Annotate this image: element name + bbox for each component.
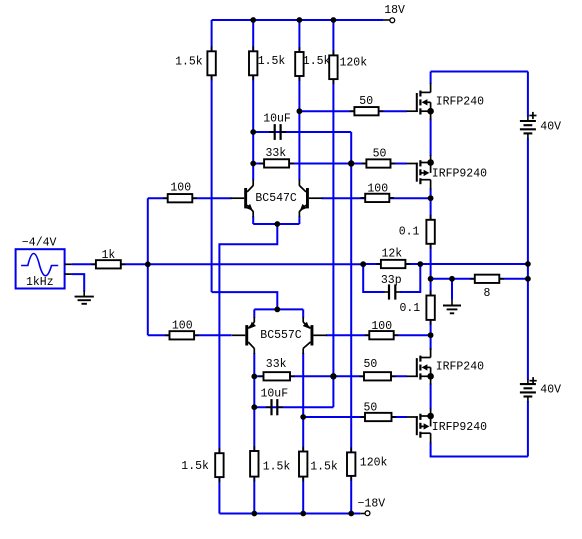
transistor BC557C left: [232, 317, 256, 354]
label 1.5k #3: [303, 55, 331, 68]
label 0.1 top: [399, 225, 420, 238]
battery 40V top: [520, 116, 536, 138]
junction 10uF bottom: [251, 404, 257, 410]
svg-text:100: 100: [371, 320, 392, 333]
label 40V top: [540, 121, 561, 134]
label BC557C: [260, 329, 302, 342]
junction 33k top: [250, 161, 256, 167]
wire ground tap: [451, 279, 453, 300]
junction output to load: [428, 276, 434, 282]
wire 33k/50-2 row: [253, 163, 407, 165]
label IRFP9240 top: [432, 167, 487, 180]
capacitor 10uF bottom: [266, 399, 283, 415]
svg-text:18V: 18V: [384, 4, 405, 17]
wire BC547 left emitter drop: [252, 216, 254, 224]
resistor 120k bottom: [347, 447, 355, 481]
ground at output mid-rail: [443, 300, 461, 314]
terminal -18V: [365, 511, 370, 516]
wire feedback row to mid rail: [363, 263, 528, 265]
label 18V: [384, 4, 405, 17]
resistor 1k input: [91, 260, 125, 268]
label 50 #4: [364, 402, 378, 415]
transistor BC547C right: [299, 180, 322, 217]
capacitor 33p: [384, 284, 400, 299]
label 50 #3: [364, 358, 378, 371]
junction gate row 100 top: [428, 195, 434, 201]
label 1kHz: [26, 276, 54, 289]
svg-text:1.5k: 1.5k: [310, 460, 338, 473]
junction gate row 100 bottom: [428, 332, 434, 338]
label BC547C: [255, 192, 297, 205]
label 1.5k bottom #3: [310, 460, 338, 473]
label 0.1 bottom: [400, 302, 421, 315]
wire 33p left leg: [363, 264, 384, 292]
resistor 100 base top-left: [163, 194, 197, 202]
wire bottom emitter row: [254, 308, 303, 310]
svg-text:120k: 120k: [340, 57, 368, 70]
wire bottom drain to battery: [431, 443, 528, 457]
junction 50-4 row: [300, 414, 306, 420]
label IRFP240 bottom: [436, 361, 484, 374]
terminal 18V: [390, 18, 395, 23]
label 40V bottom: [540, 384, 561, 397]
svg-text:1.5k: 1.5k: [263, 460, 291, 473]
wire col4 120k to lower bias node: [332, 20, 334, 376]
wire bias node drop to 10uF: [332, 376, 334, 407]
wire output column sources top: [430, 119, 432, 157]
resistor 33k top: [259, 159, 293, 167]
capacitor 10uF top: [269, 124, 286, 140]
wire drain top to battery: [431, 71, 528, 73]
svg-text:33k: 33k: [266, 358, 287, 371]
resistor 1.5k collector load right: [295, 47, 303, 81]
wire +18V top rail: [212, 19, 384, 21]
label 12k: [382, 247, 403, 260]
wire 8ohm row: [431, 278, 528, 280]
wire battery column lower: [527, 401, 529, 457]
wire input row: [72, 263, 364, 265]
svg-text:BC557C: BC557C: [260, 329, 302, 342]
svg-text:1kHz: 1kHz: [26, 276, 54, 289]
terminal 18V lead: [384, 19, 391, 21]
svg-text:−4/4V: −4/4V: [22, 236, 57, 249]
svg-text:IRFP240: IRFP240: [436, 361, 484, 374]
wire battery column upper: [527, 72, 529, 117]
wire 50-4 gate row: [303, 416, 407, 418]
svg-text:0.1: 0.1: [399, 225, 420, 238]
wire base row bottom-left: [148, 334, 232, 336]
svg-text:1.5k: 1.5k: [175, 55, 203, 68]
svg-text:1.5k: 1.5k: [258, 55, 286, 68]
voltage source pins: [65, 264, 72, 274]
junction bottom rail B3: [300, 511, 306, 517]
transistor BC557C right: [303, 317, 327, 354]
resistor 1.5k bottom collector load left: [250, 446, 258, 482]
junction mid rail load: [525, 276, 531, 282]
label 120k bottom: [360, 457, 388, 470]
label IRFP9240 bottom: [432, 421, 487, 434]
junction bottom emitters: [274, 307, 280, 313]
wire battery column middle: [527, 138, 529, 380]
mosfet IRFP240 top: [407, 83, 434, 120]
wire 33p right leg: [400, 264, 420, 292]
resistor 50 gate 1: [350, 107, 384, 115]
junction 10uF top: [250, 129, 256, 135]
svg-text:33p: 33p: [381, 274, 402, 287]
resistor 100 gate top-right: [361, 194, 395, 202]
label 1.5k bottom #1: [181, 460, 209, 473]
label 1.5k #2: [258, 55, 286, 68]
label 8: [484, 287, 491, 300]
junction feedback left: [360, 261, 366, 267]
svg-text:10uF: 10uF: [263, 113, 291, 126]
label 1k: [102, 249, 116, 262]
svg-text:IRFP240: IRFP240: [436, 95, 484, 108]
resistor 100 base bottom-left: [165, 331, 199, 339]
svg-text:−18V: −18V: [358, 498, 386, 511]
svg-text:50: 50: [373, 148, 387, 161]
wire top emitter row: [253, 223, 299, 225]
wire -18V bottom rail: [219, 513, 360, 515]
svg-text:IRFP9240: IRFP9240: [432, 167, 487, 180]
label -4/4V: [22, 236, 57, 249]
battery 40V bottom: [520, 379, 536, 401]
wire PNP tail jog row: [212, 292, 278, 309]
label 100 top-left: [170, 181, 191, 194]
junction input node: [145, 261, 151, 267]
resistor 1.5k tail top-left: [207, 46, 215, 80]
junction rail col2: [250, 17, 256, 23]
wire 10uF top row: [253, 131, 351, 133]
label 100 bottom-right: [371, 320, 392, 333]
resistor 0.1 bottom source: [426, 291, 434, 325]
svg-text:50: 50: [364, 358, 378, 371]
wire bias node column B4: [350, 132, 352, 514]
wire base row top-right: [322, 197, 431, 199]
svg-text:100: 100: [170, 181, 191, 194]
label 50 #2: [373, 148, 387, 161]
resistor 1.5k tail bottom-left: [215, 448, 223, 482]
svg-text:1.5k: 1.5k: [181, 460, 209, 473]
svg-text:1.5k: 1.5k: [303, 55, 331, 68]
wire BC557 left emitter rise: [253, 309, 255, 317]
svg-text:8: 8: [484, 287, 491, 300]
wire col1 (+rail to PNP tail jog): [211, 20, 213, 292]
junction rail col3: [297, 17, 303, 23]
wire NPN tail jog: [219, 224, 277, 514]
resistor 50 gate 4: [360, 413, 396, 421]
junction 50-1 row: [297, 108, 303, 114]
junction rail col4: [331, 17, 337, 23]
svg-text:12k: 12k: [382, 247, 403, 260]
label 10uF top: [263, 113, 291, 126]
junction bias node bottom: [330, 373, 336, 379]
resistor 12k feedback: [376, 260, 410, 268]
wire output column mid: [430, 189, 432, 351]
wire base row bottom-right: [326, 334, 431, 336]
wire col3 collector branch: [298, 20, 300, 180]
wire 50-1 gate row: [299, 110, 406, 112]
label 33p: [381, 274, 402, 287]
svg-text:50: 50: [359, 95, 373, 108]
wire input column: [147, 198, 149, 335]
resistor 50 gate 3: [359, 372, 395, 380]
wire output column sources bottom: [430, 384, 432, 410]
wire B3 collector branch: [302, 353, 304, 514]
label 100 top-right: [367, 183, 388, 196]
label 10uF bottom: [261, 388, 289, 401]
voltage source sine wave: [21, 254, 58, 276]
resistor 100 gate bottom-right: [365, 331, 399, 339]
label 1.5k #1: [175, 55, 203, 68]
label 33k bottom: [266, 358, 287, 371]
resistor 8 load: [470, 275, 504, 283]
junction top emitters: [274, 221, 280, 227]
resistor 50 gate 2: [362, 159, 396, 167]
junction feedback right: [417, 261, 423, 267]
wire B2 collector branch: [253, 353, 255, 514]
wire top drain drop: [430, 72, 432, 85]
svg-text:120k: 120k: [360, 457, 388, 470]
terminal -18V lead: [360, 513, 365, 515]
svg-text:IRFP9240: IRFP9240: [432, 421, 487, 434]
mosfet IRFP240 bottom: [407, 348, 434, 385]
voltage source V1 box: [16, 249, 65, 288]
svg-text:100: 100: [172, 320, 193, 333]
label + top battery: [529, 112, 536, 119]
wire BC547 right emitter drop: [298, 216, 300, 224]
svg-text:100: 100: [367, 183, 388, 196]
svg-text:0.1: 0.1: [400, 302, 421, 315]
wire 33k/50-3 row: [254, 375, 406, 377]
wire source lower pin: [72, 274, 85, 292]
svg-text:10uF: 10uF: [261, 388, 289, 401]
label -18V: [358, 498, 386, 511]
resistor 33k bottom: [259, 372, 295, 380]
svg-text:33k: 33k: [266, 147, 287, 160]
label + bottom battery: [530, 377, 537, 384]
label 1.5k bottom #2: [263, 460, 291, 473]
wire BC557 right emitter rise: [302, 309, 304, 317]
junction mid rail feedback: [525, 261, 531, 267]
mosfet IRFP9240 bottom: [407, 409, 434, 444]
wire 10uF bottom row: [254, 406, 333, 408]
svg-text:50: 50: [364, 402, 378, 415]
junction bottom rail B2: [251, 511, 257, 517]
resistor 120k top: [329, 50, 337, 84]
junction ground tap: [449, 276, 455, 282]
junction bottom rail B4: [348, 511, 354, 517]
svg-text:40V: 40V: [540, 384, 561, 397]
ground at source: [75, 291, 94, 304]
transistor BC547C left: [231, 180, 254, 217]
junction 33k bottom: [251, 374, 257, 380]
svg-text:BC547C: BC547C: [255, 192, 297, 205]
wire col2 collector branch: [252, 20, 254, 180]
svg-text:40V: 40V: [540, 121, 561, 134]
label 33k top: [266, 147, 287, 160]
label 50 #1: [359, 95, 373, 108]
label 120k top: [340, 57, 368, 70]
junction bias node top: [348, 160, 354, 166]
resistor 1.5k bottom collector load right: [299, 447, 307, 482]
resistor 1.5k collector load left: [249, 46, 257, 80]
label 100 bottom-left: [172, 320, 193, 333]
mosfet IRFP9240 top: [407, 155, 434, 190]
wire base row top-left: [148, 197, 232, 199]
resistor 0.1 top source: [426, 215, 434, 249]
svg-text:1k: 1k: [102, 249, 116, 262]
label IRFP240 top: [436, 95, 484, 108]
